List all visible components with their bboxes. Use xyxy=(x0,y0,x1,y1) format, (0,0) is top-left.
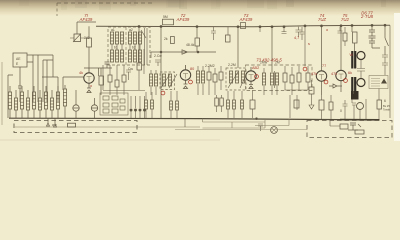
svg-text:48.4k: 48.4k xyxy=(186,43,195,47)
svg-text:a b: a b xyxy=(52,123,57,127)
svg-text:47k: 47k xyxy=(331,72,337,76)
svg-text:2Mw: 2Mw xyxy=(260,61,268,65)
svg-text:77: 77 xyxy=(322,64,326,68)
svg-text:a2: a2 xyxy=(129,28,133,32)
svg-text:o: o xyxy=(326,28,328,32)
svg-text:0: 0 xyxy=(340,109,342,113)
svg-text:AE: AE xyxy=(16,57,21,61)
svg-text:6: 6 xyxy=(384,99,386,103)
svg-text:2-2M: 2-2M xyxy=(228,63,236,67)
svg-text:47k: 47k xyxy=(311,72,317,76)
svg-text:b1: b1 xyxy=(114,46,118,50)
svg-text:7UZ: 7UZ xyxy=(318,17,326,22)
svg-text:80: 80 xyxy=(190,67,194,71)
svg-text:2-TU8: 2-TU8 xyxy=(360,14,374,19)
svg-text:AF439: AF439 xyxy=(176,17,190,22)
svg-text:2M: 2M xyxy=(275,61,280,65)
svg-text:7U2: 7U2 xyxy=(341,17,349,22)
svg-text:Bu 25: Bu 25 xyxy=(383,104,390,108)
svg-text:b2: b2 xyxy=(132,46,136,50)
svg-text:4k: 4k xyxy=(79,71,83,75)
svg-text:Cw: Cw xyxy=(128,67,133,71)
svg-text:5M: 5M xyxy=(163,15,168,19)
svg-text:2k: 2k xyxy=(164,37,168,41)
svg-text:a1: a1 xyxy=(111,28,115,32)
svg-text:2.Cw: 2.Cw xyxy=(154,54,162,58)
svg-text:2-2M2: 2-2M2 xyxy=(205,64,215,68)
svg-text:342: 342 xyxy=(84,36,90,40)
svg-text:6k: 6k xyxy=(348,71,352,75)
svg-text:s: s xyxy=(308,42,310,46)
svg-text:AF439: AF439 xyxy=(79,17,93,22)
svg-text:W: W xyxy=(350,53,354,57)
svg-text:Tonab: Tonab xyxy=(383,108,391,112)
svg-text:AF439: AF439 xyxy=(239,17,253,22)
svg-text:AB2: AB2 xyxy=(252,66,259,70)
svg-text:4,7: 4,7 xyxy=(294,36,299,40)
svg-text:o: o xyxy=(90,84,92,88)
